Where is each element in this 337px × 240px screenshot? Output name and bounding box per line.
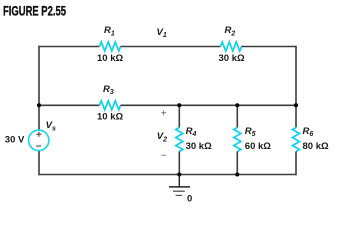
svg-text:R6: R6 (303, 126, 314, 138)
svg-text:30 V: 30 V (5, 135, 25, 146)
wire: middle left segment (39, 104, 100, 106)
resistor R3 (100, 101, 121, 110)
resistor R6 (293, 128, 300, 152)
svg-text:FIGURE P2.55: FIGURE P2.55 (3, 3, 66, 19)
wire: middle right segment (121, 104, 297, 106)
svg-text:R5: R5 (245, 126, 256, 138)
node junction R5 top (235, 103, 239, 107)
svg-text:10 kΩ: 10 kΩ (97, 53, 123, 64)
svg-text:V1: V1 (157, 27, 167, 39)
wire: left vertical upper (38, 46, 40, 131)
svg-text:R2: R2 (225, 25, 236, 37)
svg-text:R4: R4 (186, 126, 197, 138)
wire: right vertical lower (295, 152, 297, 176)
node junction R4 top (177, 103, 181, 107)
node junction left-middle (37, 103, 41, 107)
wire: R2 to top-right corner (242, 46, 297, 48)
resistor R4 (176, 128, 183, 152)
node junction middle right (294, 103, 298, 107)
resistor R2 (221, 42, 242, 51)
svg-text:60 kΩ: 60 kΩ (245, 141, 271, 152)
wire: R4 branch upper (178, 105, 180, 127)
wire: bottom rail (39, 174, 296, 176)
wire: right vertical upper (295, 46, 297, 128)
svg-text:80 kΩ: 80 kΩ (303, 141, 329, 152)
wire: R5 branch lower (236, 152, 238, 175)
resistor R1 (100, 42, 121, 51)
wire: R4 branch lower (178, 152, 180, 175)
node junction R5 bottom (235, 172, 239, 176)
svg-text:Vs: Vs (46, 120, 56, 132)
svg-text:V2: V2 (157, 131, 167, 143)
resistor R5 (234, 128, 241, 152)
svg-text:0: 0 (187, 193, 192, 204)
voltage source Vs (29, 130, 49, 150)
svg-text:10 kΩ: 10 kΩ (97, 112, 123, 123)
svg-text:R1: R1 (104, 25, 115, 37)
wire: left vertical lower (38, 150, 40, 175)
svg-text:R3: R3 (103, 84, 114, 96)
wire: R5 branch upper (236, 105, 238, 127)
wire: top-left to R1 (39, 46, 100, 48)
ground (178, 175, 180, 187)
svg-text:30 kΩ: 30 kΩ (219, 53, 245, 64)
svg-text:30 kΩ: 30 kΩ (186, 141, 212, 152)
svg-text:−: − (161, 151, 167, 162)
wire: R1 to R2 (121, 46, 221, 48)
node junction R4 bottom (177, 172, 181, 176)
svg-text:+: + (161, 108, 167, 119)
